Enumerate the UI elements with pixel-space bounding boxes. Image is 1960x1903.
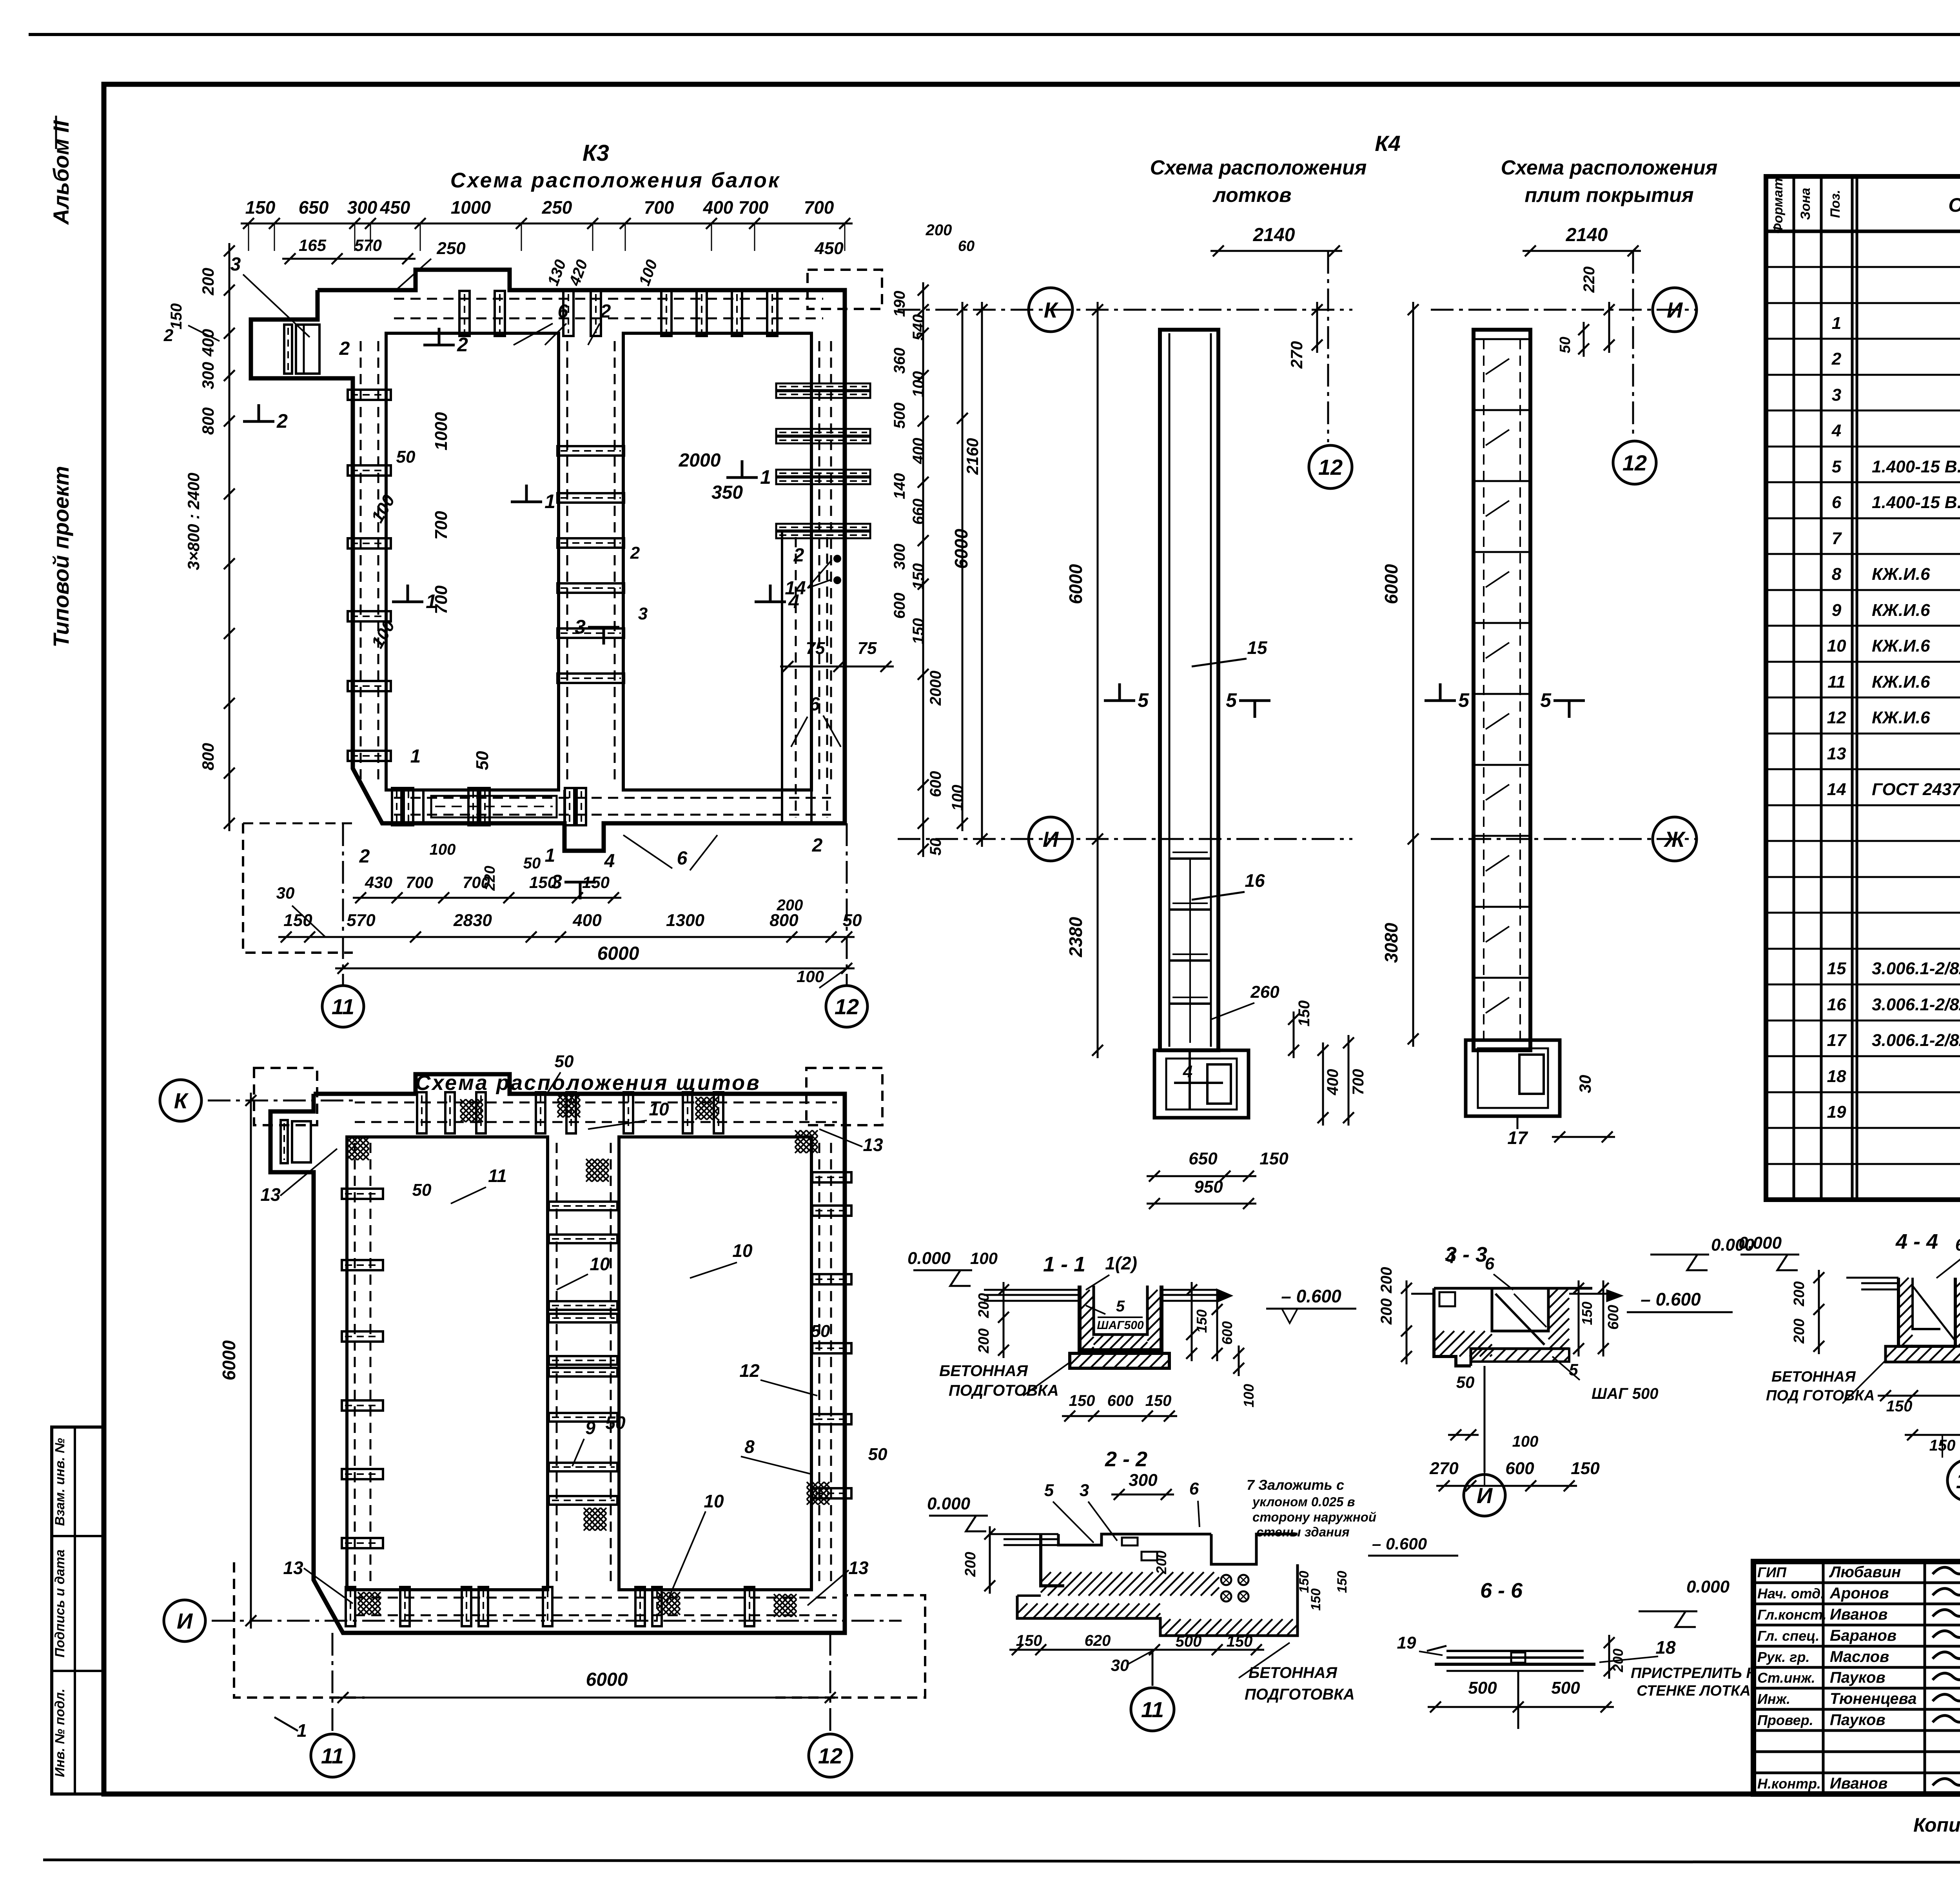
svg-text:13: 13 [1827, 744, 1846, 763]
svg-text:Пауков: Пауков [1830, 1711, 1886, 1729]
svg-text:600: 600 [891, 593, 908, 619]
svg-text:200: 200 [1153, 1551, 1169, 1574]
svg-text:Аронов: Аронов [1829, 1585, 1889, 1602]
svg-text:КЖ.И.6: КЖ.И.6 [1872, 601, 1930, 620]
svg-text:1.400-15 В.1-110-02: 1.400-15 В.1-110-02 [1872, 457, 1960, 476]
svg-text:2140: 2140 [1253, 225, 1295, 245]
svg-text:1: 1 [1832, 314, 1841, 333]
svg-text:50: 50 [412, 1180, 432, 1200]
svg-text:6000: 6000 [1065, 564, 1086, 604]
svg-text:600: 600 [1107, 1392, 1134, 1409]
svg-text:600: 600 [1605, 1305, 1622, 1329]
svg-text:150: 150 [1296, 1001, 1313, 1027]
svg-text:2: 2 [163, 326, 174, 345]
svg-text:2000: 2000 [679, 450, 721, 471]
svg-text:ШАГ 500: ШАГ 500 [1592, 1385, 1658, 1402]
svg-text:200: 200 [1791, 1318, 1808, 1344]
svg-text:50: 50 [1456, 1373, 1475, 1391]
svg-text:Гл.конст.: Гл.конст. [1757, 1607, 1827, 1623]
svg-text:– 0.600: – 0.600 [1281, 1286, 1341, 1306]
svg-text:600: 600 [1219, 1321, 1235, 1345]
svg-text:уклоном 0.025 в: уклоном 0.025 в [1252, 1494, 1355, 1509]
svg-text:3080: 3080 [1381, 922, 1401, 963]
shield beams left wall [342, 1189, 383, 1199]
svg-text:6000: 6000 [1381, 564, 1401, 604]
shield room right [619, 1137, 811, 1590]
svg-text:400: 400 [1324, 1069, 1341, 1096]
svg-text:700: 700 [432, 511, 451, 540]
svg-text:1: 1 [297, 1720, 307, 1741]
K4 left channel pit [1154, 1050, 1249, 1118]
svg-text:Пауков: Пауков [1830, 1669, 1886, 1686]
svg-text:50: 50 [473, 751, 492, 770]
shield beams central [549, 1202, 617, 1210]
svg-text:6000: 6000 [597, 943, 639, 964]
svg-text:Провер.: Провер. [1757, 1712, 1813, 1728]
svg-text:3: 3 [575, 616, 586, 638]
svg-text:3: 3 [1832, 385, 1841, 405]
svg-text:220: 220 [1581, 267, 1598, 293]
svg-text:9: 9 [1832, 601, 1842, 620]
svg-text:Схема расположения: Схема расположения [1150, 156, 1367, 179]
svg-text:400: 400 [703, 197, 733, 218]
svg-text:150: 150 [1145, 1392, 1172, 1409]
svg-text:150: 150 [1579, 1302, 1595, 1325]
svg-text:800: 800 [199, 743, 217, 770]
svg-text:2: 2 [812, 835, 823, 856]
svg-text:200: 200 [962, 1552, 979, 1577]
svg-text:150: 150 [1886, 1398, 1913, 1415]
svg-text:100: 100 [910, 371, 927, 398]
svg-text:Тюненцева: Тюненцева [1830, 1690, 1917, 1707]
svg-text:ГОСТ 24379.1-80: ГОСТ 24379.1-80 [1872, 780, 1960, 799]
K3 bottom dim row B [278, 936, 855, 938]
svg-text:4: 4 [1183, 1062, 1192, 1081]
svg-text:13: 13 [863, 1135, 883, 1155]
svg-text:12: 12 [1827, 708, 1846, 727]
svg-text:13: 13 [848, 1558, 869, 1578]
svg-text:450: 450 [380, 197, 410, 218]
svg-text:2: 2 [276, 410, 288, 432]
svg-text:150: 150 [582, 873, 610, 892]
sheet border top [29, 33, 1960, 36]
svg-text:2: 2 [793, 545, 804, 566]
svg-text:15: 15 [1247, 637, 1268, 658]
sheet border bottom [43, 1860, 1960, 1863]
svg-text:150: 150 [1308, 1589, 1323, 1611]
svg-text:0.000: 0.000 [927, 1494, 971, 1513]
svg-text:18: 18 [1655, 1637, 1676, 1658]
svg-text:950: 950 [1194, 1177, 1223, 1197]
svg-text:6: 6 [809, 694, 820, 715]
svg-text:Гл. спец.: Гл. спец. [1757, 1628, 1819, 1644]
svg-text:Типовой проект: Типовой проект [49, 466, 73, 647]
svg-text:12: 12 [739, 1360, 760, 1381]
svg-text:Маслов: Маслов [1830, 1648, 1889, 1665]
title block [1753, 1562, 1960, 1794]
svg-text:270: 270 [1287, 341, 1306, 369]
svg-text:12: 12 [818, 1743, 842, 1768]
svg-text:10: 10 [1827, 636, 1846, 656]
svg-text:30: 30 [276, 884, 295, 902]
svg-text:Обозначение: Обозначение [1948, 194, 1960, 216]
svg-text:6: 6 [1955, 1235, 1960, 1255]
K4 left 5T marks [1104, 699, 1135, 702]
svg-text:1 - 1: 1 - 1 [1043, 1253, 1085, 1276]
K4 right channel dims [1523, 250, 1641, 252]
svg-text:570: 570 [347, 911, 376, 930]
svg-text:500: 500 [891, 403, 908, 429]
svg-text:100: 100 [1241, 1384, 1257, 1407]
svg-text:2: 2 [1831, 349, 1842, 369]
svg-text:2380: 2380 [1065, 917, 1086, 957]
svg-text:6: 6 [558, 301, 568, 322]
svg-text:400: 400 [572, 911, 602, 930]
svg-text:150: 150 [910, 563, 927, 590]
svg-text:150: 150 [1259, 1149, 1289, 1168]
shield beams right wall [812, 1172, 851, 1182]
svg-text:75: 75 [858, 639, 877, 658]
K3 top right dashed box [808, 270, 882, 309]
svg-text:3: 3 [230, 254, 241, 275]
svg-text:16: 16 [1827, 995, 1846, 1014]
K4 right channel (plity) [1474, 330, 1530, 1050]
svg-text:500: 500 [1176, 1633, 1202, 1650]
svg-text:ПОДГОТОВКА: ПОДГОТОВКА [1245, 1686, 1355, 1703]
svg-text:100: 100 [797, 967, 824, 986]
K3 beams central corridor [557, 446, 624, 456]
svg-text:350: 350 [711, 482, 743, 503]
svg-text:15: 15 [1827, 959, 1846, 978]
svg-text:2: 2 [359, 846, 370, 867]
svg-text:6: 6 [1485, 1254, 1495, 1273]
svg-text:И: И [1667, 298, 1683, 322]
svg-text:ПРИСТРЕЛИТЬ К: ПРИСТРЕЛИТЬ К [1631, 1665, 1756, 1681]
shield corridor dashes [354, 1143, 356, 1584]
svg-text:9: 9 [585, 1418, 595, 1438]
svg-text:50: 50 [927, 838, 944, 856]
svg-text:200: 200 [926, 222, 952, 239]
svg-text:5: 5 [1226, 689, 1237, 711]
svg-text:660: 660 [910, 499, 927, 525]
shield outer contour [270, 1074, 845, 1633]
svg-text:11: 11 [1828, 672, 1846, 692]
K3 bottom dim row A [353, 897, 621, 899]
svg-text:2: 2 [600, 301, 611, 322]
svg-text:6000: 6000 [951, 528, 971, 569]
svg-text:ПОД ГОТОВКА: ПОД ГОТОВКА [1766, 1387, 1875, 1404]
svg-text:5: 5 [1569, 1360, 1578, 1379]
svg-text:БЕТОННАЯ: БЕТОННАЯ [939, 1362, 1028, 1380]
svg-text:700: 700 [804, 197, 834, 218]
svg-text:2160: 2160 [963, 438, 982, 475]
shield left appendix detail [292, 1121, 311, 1162]
svg-text:700: 700 [644, 197, 674, 218]
svg-text:19: 19 [1827, 1102, 1846, 1122]
svg-text:11: 11 [488, 1166, 507, 1186]
svg-text:200: 200 [976, 1328, 992, 1353]
svg-text:5: 5 [1540, 689, 1552, 711]
svg-text:К3: К3 [583, 140, 609, 166]
svg-text:Взам. инв. №: Взам. инв. № [53, 1438, 67, 1526]
svg-text:Иванов: Иванов [1830, 1775, 1887, 1792]
svg-text:Поз.: Поз. [1828, 190, 1843, 218]
svg-text:75: 75 [806, 639, 825, 658]
svg-text:150: 150 [529, 873, 557, 892]
svg-text:50: 50 [555, 1052, 574, 1071]
shield beams top wall [417, 1092, 426, 1133]
K3 bottom left dashed box [243, 823, 353, 953]
svg-text:4: 4 [1831, 421, 1841, 440]
svg-text:50: 50 [523, 855, 541, 872]
svg-text:650: 650 [299, 197, 329, 218]
svg-text:стены здания: стены здания [1256, 1525, 1350, 1539]
signatures [1933, 1563, 1960, 1574]
svg-text:450: 450 [814, 239, 844, 258]
svg-text:17: 17 [1507, 1128, 1528, 1148]
svg-text:2: 2 [339, 338, 350, 359]
svg-text:500: 500 [1468, 1678, 1497, 1698]
svg-text:11: 11 [321, 1743, 344, 1768]
svg-text:3: 3 [1080, 1481, 1089, 1500]
svg-text:300: 300 [1129, 1471, 1158, 1490]
svg-text:4 - 4: 4 - 4 [1895, 1230, 1938, 1253]
svg-text:300: 300 [199, 362, 217, 389]
svg-text:5: 5 [1044, 1481, 1054, 1500]
svg-text:570: 570 [354, 236, 382, 254]
svg-text:4: 4 [604, 851, 615, 872]
shield room left [347, 1137, 548, 1590]
svg-text:Инж.: Инж. [1757, 1691, 1790, 1707]
K4 axis lines [898, 309, 1352, 311]
svg-text:10: 10 [704, 1491, 724, 1511]
svg-text:50: 50 [843, 911, 862, 930]
svg-text:300: 300 [347, 197, 377, 218]
svg-text:К: К [174, 1088, 189, 1113]
svg-text:650: 650 [1189, 1149, 1218, 1168]
svg-text:4: 4 [1445, 1248, 1455, 1267]
K3 second dim row [282, 258, 416, 260]
svg-text:11: 11 [1141, 1697, 1164, 1722]
svg-text:6: 6 [677, 848, 688, 869]
svg-text:200: 200 [1378, 1267, 1395, 1294]
svg-text:200: 200 [1610, 1649, 1626, 1672]
K3 left appendix detail [296, 325, 319, 374]
svg-text:Формат: Формат [1771, 178, 1786, 234]
svg-text:КЖ.И.6: КЖ.И.6 [1872, 672, 1930, 692]
shield bottom dim 6000 [335, 1697, 838, 1699]
K4 right channel pit [1466, 1040, 1560, 1116]
K3 bottom inner box [422, 790, 425, 823]
shield dashed boxes [254, 1068, 317, 1125]
shield beams bottom wall [346, 1587, 355, 1626]
svg-text:Зона: Зона [1798, 188, 1813, 220]
K3 axes 11 12 [342, 823, 344, 985]
svg-text:5: 5 [1138, 689, 1149, 711]
svg-text:10: 10 [590, 1254, 610, 1274]
svg-text:7: 7 [1832, 529, 1842, 548]
spec table grid [1766, 176, 1960, 1200]
svg-text:Ж: Ж [1663, 827, 1686, 852]
K3 left dim column [229, 243, 230, 831]
svg-text:1000: 1000 [432, 412, 451, 450]
K4 left channel (lotki) [1160, 330, 1218, 1050]
svg-text:50: 50 [396, 447, 416, 467]
svg-text:1: 1 [545, 845, 555, 866]
K3 beams bottom wall [392, 788, 401, 825]
svg-text:150: 150 [910, 618, 927, 645]
svg-text:1.400-15 В.1-550-04: 1.400-15 В.1-550-04 [1872, 493, 1960, 512]
svg-text:150: 150 [1571, 1459, 1600, 1478]
svg-text:2 - 2: 2 - 2 [1105, 1447, 1147, 1471]
K3 central corridor walls [557, 333, 560, 790]
svg-text:3.006.1-2/82.1-2: 3.006.1-2/82.1-2 [1872, 1031, 1960, 1050]
svg-text:КЖ.И.6: КЖ.И.6 [1872, 636, 1930, 656]
svg-text:165: 165 [299, 236, 327, 254]
shield axes circles [208, 1100, 353, 1102]
svg-text:Иванов: Иванов [1830, 1606, 1887, 1623]
svg-text:Схема расположения балок: Схема расположения балок [450, 169, 780, 192]
svg-text:400: 400 [199, 329, 217, 357]
svg-text:0.000: 0.000 [907, 1249, 951, 1268]
svg-text:6 - 6: 6 - 6 [1480, 1579, 1523, 1602]
svg-text:150: 150 [1194, 1309, 1210, 1333]
svg-text:1(2): 1(2) [1105, 1253, 1137, 1273]
svg-text:100: 100 [430, 841, 456, 858]
K3 beams right wall [776, 383, 870, 390]
svg-text:700: 700 [432, 585, 451, 614]
svg-text:17: 17 [1827, 1031, 1847, 1050]
svg-text:250: 250 [436, 239, 466, 258]
svg-text:600: 600 [927, 771, 944, 797]
svg-text:13: 13 [260, 1184, 281, 1205]
svg-text:Ст.инж.: Ст.инж. [1757, 1670, 1815, 1686]
svg-text:11: 11 [332, 994, 354, 1019]
svg-text:И: И [1477, 1483, 1493, 1508]
svg-text:400: 400 [910, 438, 927, 465]
svg-text:360: 360 [891, 348, 908, 374]
svg-text:700: 700 [463, 873, 490, 892]
sidebar stamp table [52, 1427, 103, 1794]
K3 outer contour [251, 270, 845, 851]
svg-text:1: 1 [544, 490, 555, 512]
K3 right dim columns [922, 282, 924, 857]
svg-text:150: 150 [245, 197, 276, 218]
svg-text:100: 100 [949, 785, 966, 811]
svg-text:13: 13 [283, 1558, 303, 1578]
svg-text:Подпись и дата: Подпись и дата [53, 1549, 67, 1658]
K4 left channel dims [1210, 250, 1342, 252]
svg-text:620: 620 [1085, 1632, 1111, 1649]
svg-text:10: 10 [732, 1240, 753, 1261]
svg-text:1000: 1000 [451, 197, 491, 218]
svg-text:200: 200 [1378, 1298, 1395, 1325]
svg-text:12: 12 [835, 994, 859, 1019]
svg-text:Н.контр.: Н.контр. [1757, 1776, 1821, 1792]
svg-text:– 0.600: – 0.600 [1641, 1289, 1701, 1309]
shield hatch squares [346, 1137, 369, 1160]
svg-text:5: 5 [1832, 457, 1842, 476]
svg-text:12: 12 [1622, 450, 1647, 475]
K3 beams left wall [348, 390, 391, 400]
svg-text:ШАГ500: ШАГ500 [1097, 1319, 1144, 1332]
svg-text:150: 150 [1335, 1571, 1350, 1593]
svg-text:И: И [177, 1609, 193, 1633]
svg-text:150: 150 [1016, 1632, 1042, 1649]
svg-text:Копировал Сир-: Копировал Сир- [1913, 1814, 1960, 1836]
svg-text:2140: 2140 [1566, 225, 1608, 245]
svg-text:КЖ.И.6: КЖ.И.6 [1872, 708, 1930, 727]
svg-text:1300: 1300 [666, 911, 704, 930]
svg-text:540: 540 [910, 314, 927, 341]
svg-text:сторону наружной: сторону наружной [1252, 1510, 1376, 1524]
svg-text:12: 12 [1318, 455, 1343, 479]
svg-text:260: 260 [1250, 982, 1279, 1002]
K3 bottom dim row C (6000) [335, 968, 855, 970]
svg-text:К: К [1044, 298, 1059, 322]
svg-text:– 0.600: – 0.600 [1372, 1534, 1427, 1553]
svg-text:лотков: лотков [1212, 184, 1291, 207]
svg-text:5: 5 [1458, 689, 1470, 711]
svg-text:10: 10 [649, 1099, 669, 1119]
svg-text:2: 2 [457, 334, 468, 356]
svg-text:ГИП: ГИП [1757, 1564, 1787, 1580]
svg-text:1: 1 [760, 466, 771, 488]
K4 right 5T marks [1425, 699, 1456, 702]
svg-text:6000: 6000 [219, 1340, 239, 1380]
svg-text:14: 14 [1827, 780, 1846, 799]
svg-text:19: 19 [1397, 1633, 1416, 1652]
svg-text:18: 18 [1827, 1067, 1846, 1086]
K3 beams top wall [459, 291, 470, 336]
svg-text:3.006.1-2/82.1-1: 3.006.1-2/82.1-1 [1872, 995, 1960, 1014]
svg-text:100: 100 [1512, 1433, 1539, 1450]
svg-text:Инв. № подл.: Инв. № подл. [53, 1689, 67, 1777]
svg-text:12: 12 [1956, 1468, 1960, 1493]
svg-text:60: 60 [958, 238, 975, 254]
svg-text:плит покрытия: плит покрытия [1524, 184, 1693, 207]
svg-text:700: 700 [1350, 1069, 1367, 1095]
K3 t-marks [423, 344, 455, 347]
svg-text:Рук. гр.: Рук. гр. [1757, 1649, 1810, 1665]
svg-text:5: 5 [1116, 1298, 1125, 1315]
svg-text:500: 500 [1551, 1678, 1580, 1698]
svg-text:270: 270 [1429, 1459, 1459, 1478]
svg-text:190: 190 [891, 291, 908, 317]
svg-text:430: 430 [365, 873, 392, 892]
svg-text:0.000: 0.000 [1739, 1233, 1782, 1253]
svg-text:3.006.1-2/82.1-1: 3.006.1-2/82.1-1 [1872, 959, 1960, 978]
svg-text:Нач. отд.: Нач. отд. [1757, 1585, 1824, 1602]
svg-text:БЕТОННАЯ: БЕТОННАЯ [1771, 1369, 1856, 1385]
svg-text:100: 100 [970, 1249, 998, 1267]
svg-text:3: 3 [638, 604, 648, 623]
svg-text:150: 150 [1069, 1392, 1095, 1409]
svg-text:2: 2 [630, 543, 640, 563]
svg-text:БЕТОННАЯ: БЕТОННАЯ [1249, 1664, 1338, 1681]
svg-text:700: 700 [406, 873, 433, 892]
svg-text:6: 6 [1189, 1479, 1199, 1498]
svg-text:200: 200 [1791, 1281, 1808, 1306]
svg-text:0.000: 0.000 [1686, 1577, 1730, 1596]
svg-text:50: 50 [1557, 337, 1573, 353]
svg-text:16: 16 [1245, 870, 1265, 891]
svg-text:6: 6 [1832, 493, 1842, 512]
shield central corridor walls [546, 1137, 549, 1590]
svg-text:Схема расположения: Схема расположения [1501, 156, 1718, 179]
svg-text:50: 50 [605, 1413, 626, 1433]
svg-text:600: 600 [1505, 1459, 1534, 1478]
